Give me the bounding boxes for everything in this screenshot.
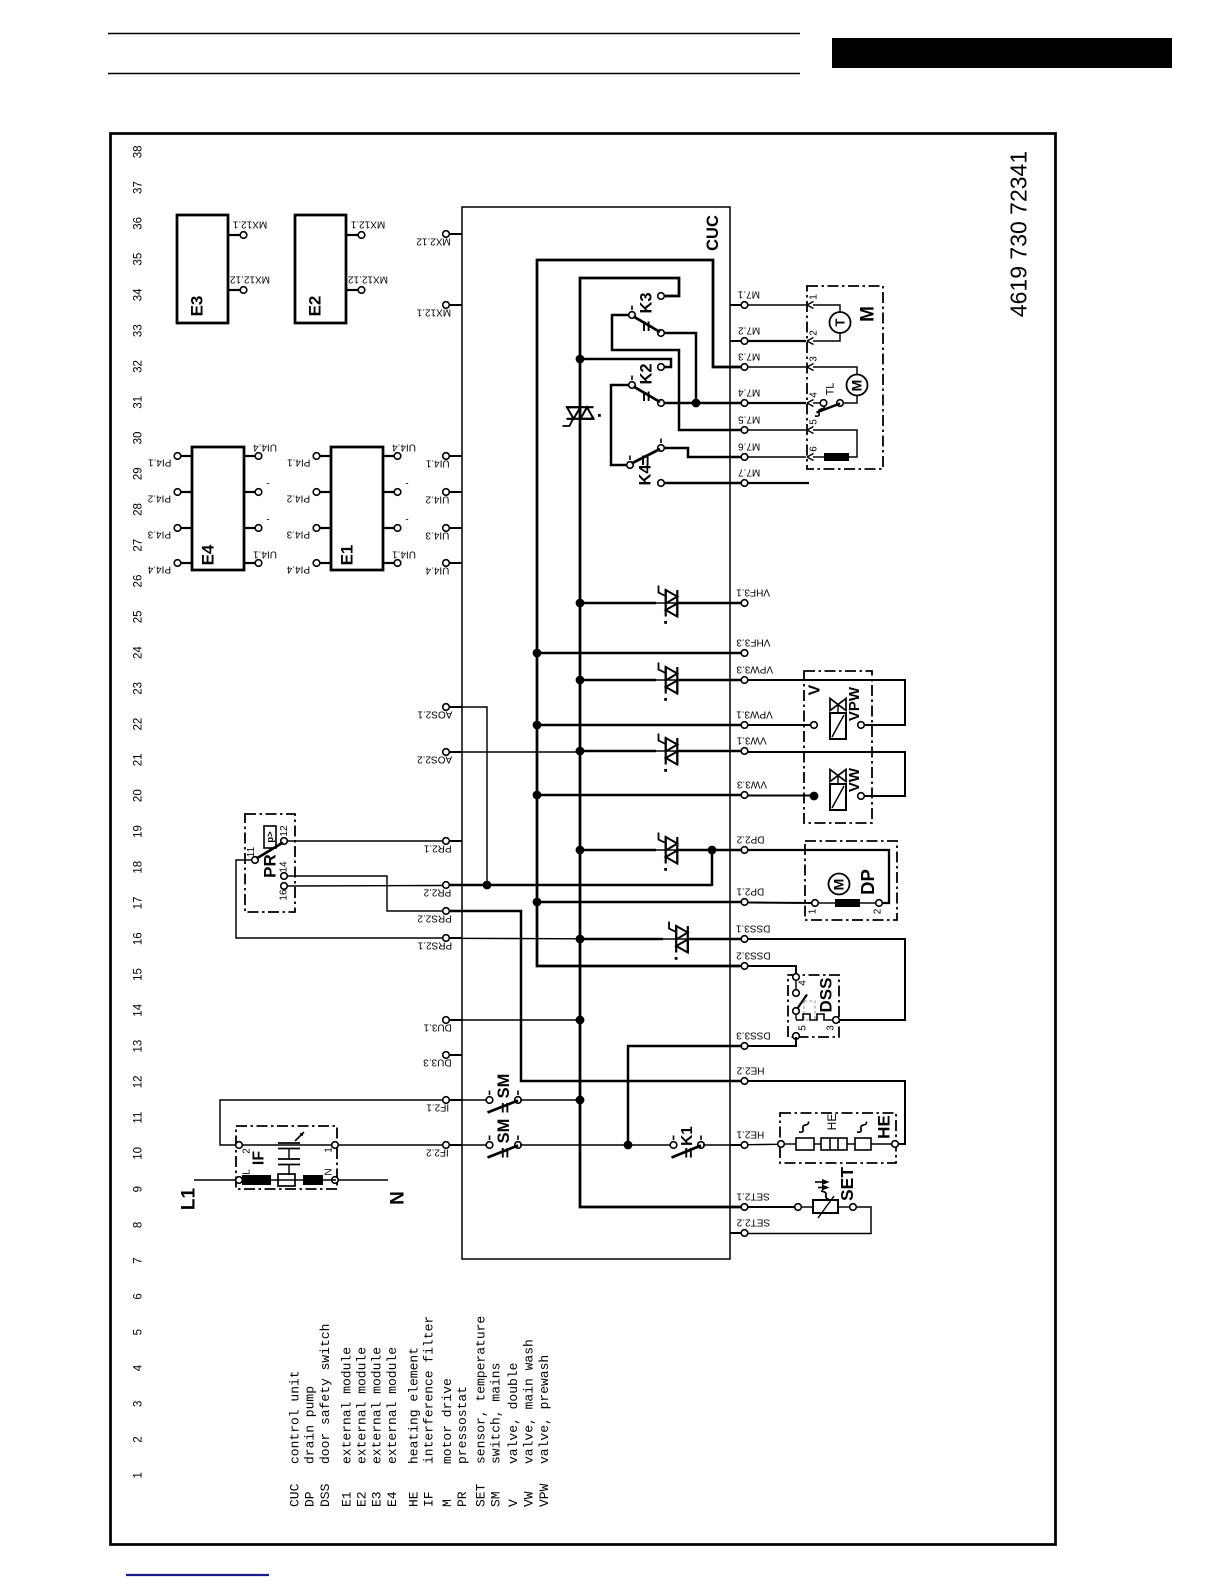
svg-text:SET2.1: SET2.1	[736, 1191, 770, 1202]
svg-text:26: 26	[132, 575, 144, 588]
svg-text:32: 32	[132, 360, 144, 373]
svg-text:VHF3.3: VHF3.3	[736, 637, 770, 648]
svg-text:M7.3: M7.3	[738, 351, 761, 362]
svg-text:SM: SM	[495, 1119, 513, 1144]
svg-text:M7.1: M7.1	[737, 289, 760, 300]
svg-text:control unit: control unit	[288, 1370, 303, 1464]
svg-text:VHF3.1: VHF3.1	[736, 587, 770, 598]
svg-text:VPW: VPW	[846, 686, 863, 721]
svg-text:V: V	[506, 1499, 521, 1507]
svg-text:MX12.12: MX12.12	[348, 274, 388, 285]
svg-text:sensor, temperature: sensor, temperature	[474, 1316, 489, 1464]
svg-text:MX12.1: MX12.1	[232, 219, 267, 230]
svg-text:38: 38	[132, 145, 144, 158]
svg-text:PI4.1: PI4.1	[287, 457, 311, 468]
svg-text:p>: p>	[265, 831, 276, 843]
svg-text:30: 30	[132, 432, 144, 445]
svg-text:PR2.1: PR2.1	[423, 843, 451, 854]
svg-text:20: 20	[132, 789, 144, 802]
svg-text:E4: E4	[199, 544, 218, 565]
svg-text:DU3.3: DU3.3	[423, 1057, 452, 1068]
svg-text:VW3.3: VW3.3	[737, 779, 767, 790]
svg-text:DSS3.1: DSS3.1	[735, 923, 770, 934]
svg-text:PI4.2: PI4.2	[147, 493, 171, 504]
svg-text:19: 19	[132, 825, 144, 838]
svg-text:MX12.1: MX12.1	[350, 219, 385, 230]
svg-text:SET: SET	[837, 1167, 857, 1201]
svg-text:37: 37	[132, 181, 144, 194]
svg-text:CUC: CUC	[704, 215, 722, 251]
svg-text:21: 21	[132, 754, 144, 767]
svg-text:VW: VW	[522, 1491, 537, 1507]
svg-text:valve, main wash: valve, main wash	[522, 1339, 537, 1464]
svg-text:4619 730 72341: 4619 730 72341	[1006, 151, 1032, 317]
svg-text:M7.7: M7.7	[738, 467, 761, 478]
svg-text:16: 16	[132, 932, 144, 945]
svg-text:22: 22	[132, 718, 144, 731]
svg-text:11: 11	[246, 846, 257, 857]
svg-text:drain pump: drain pump	[303, 1386, 318, 1464]
svg-text:E1: E1	[340, 1491, 355, 1507]
svg-text:13: 13	[132, 1040, 144, 1053]
svg-text:-: -	[405, 514, 408, 525]
svg-text:VW3.1: VW3.1	[736, 735, 766, 746]
svg-text:V: V	[806, 684, 823, 695]
svg-text:HE: HE	[825, 1114, 839, 1131]
svg-text:8: 8	[132, 1222, 144, 1228]
svg-text:SM: SM	[489, 1491, 504, 1507]
svg-text:16: 16	[278, 889, 289, 901]
svg-text:DSS: DSS	[318, 1483, 333, 1507]
svg-text:UI4.1: UI4.1	[253, 549, 277, 560]
svg-text:E2: E2	[355, 1491, 370, 1507]
svg-text:HE: HE	[407, 1491, 422, 1507]
svg-text:K3: K3	[637, 292, 655, 313]
svg-text:PI4.2: PI4.2	[286, 493, 310, 504]
svg-text:K4: K4	[636, 464, 654, 486]
svg-text:N: N	[387, 1191, 408, 1205]
svg-text:MX12.1: MX12.1	[416, 307, 451, 318]
svg-text:PI4.1: PI4.1	[148, 457, 172, 468]
svg-text:E1: E1	[338, 545, 357, 566]
svg-text:PI4.4: PI4.4	[286, 564, 310, 575]
svg-text:VPW3.1: VPW3.1	[736, 709, 773, 720]
svg-text:34: 34	[132, 288, 144, 301]
svg-text:heating element: heating element	[407, 1347, 422, 1464]
svg-text:AOS2.1: AOS2.1	[417, 709, 452, 720]
svg-text:HE: HE	[875, 1115, 894, 1139]
svg-text:DP2.2: DP2.2	[736, 834, 764, 845]
svg-text:SM: SM	[495, 1074, 513, 1099]
svg-text:PI4.4: PI4.4	[147, 564, 171, 575]
svg-text:33: 33	[132, 324, 144, 337]
svg-text:PRS2.2: PRS2.2	[417, 913, 452, 924]
svg-text:SET: SET	[474, 1483, 489, 1507]
svg-text:1: 1	[808, 294, 819, 300]
svg-text:M7.2: M7.2	[738, 325, 761, 336]
svg-text:HE2.1: HE2.1	[736, 1129, 764, 1140]
svg-text:1: 1	[323, 1147, 334, 1153]
svg-text:3: 3	[132, 1401, 144, 1407]
svg-text:4: 4	[132, 1364, 144, 1371]
svg-text:1: 1	[132, 1472, 144, 1478]
svg-text:2: 2	[808, 330, 819, 336]
svg-text:HE2.2: HE2.2	[736, 1065, 764, 1076]
svg-text:DSS3.2: DSS3.2	[736, 950, 771, 961]
svg-text:-: -	[266, 514, 269, 525]
svg-text:E3: E3	[188, 296, 207, 317]
svg-text:UI4.1: UI4.1	[392, 549, 416, 560]
svg-text:PR: PR	[261, 854, 280, 878]
svg-text:11: 11	[132, 1112, 144, 1124]
svg-text:DP: DP	[303, 1491, 318, 1507]
svg-text:23: 23	[132, 682, 144, 695]
svg-text:17: 17	[132, 897, 144, 910]
svg-text:external module: external module	[355, 1347, 370, 1464]
svg-text:VPW: VPW	[537, 1483, 552, 1507]
svg-text:1: 1	[807, 908, 818, 914]
svg-text:switch, mains: switch, mains	[489, 1363, 504, 1464]
svg-text:DP: DP	[857, 869, 878, 895]
svg-text:5: 5	[132, 1329, 144, 1335]
svg-text:-: -	[405, 478, 408, 489]
svg-text:35: 35	[132, 253, 144, 266]
svg-text:N: N	[323, 1168, 334, 1175]
svg-text:25: 25	[132, 610, 144, 623]
svg-text:24: 24	[132, 646, 144, 659]
svg-text:2: 2	[241, 1148, 252, 1154]
svg-text:M: M	[857, 306, 878, 322]
svg-text:AOS2.2: AOS2.2	[417, 754, 452, 765]
svg-text:IF: IF	[422, 1491, 437, 1507]
svg-text:12: 12	[279, 825, 290, 837]
svg-text:31: 31	[132, 396, 144, 409]
svg-text:M7.4: M7.4	[738, 387, 761, 398]
svg-text:UI4.1: UI4.1	[425, 458, 449, 469]
svg-text:M7.5: M7.5	[738, 414, 761, 425]
svg-text:UI4.4: UI4.4	[425, 565, 449, 576]
svg-text:4: 4	[797, 980, 808, 986]
svg-text:SET2.2: SET2.2	[736, 1217, 770, 1228]
svg-text:7: 7	[132, 1257, 144, 1263]
svg-text:L1: L1	[178, 1187, 199, 1210]
svg-text:interference filter: interference filter	[422, 1316, 437, 1464]
svg-text:IF: IF	[250, 1151, 267, 1165]
svg-text:UI4.4: UI4.4	[392, 442, 416, 453]
svg-text:K2: K2	[637, 363, 655, 384]
svg-text:2: 2	[872, 908, 883, 914]
svg-text:VPW3.3: VPW3.3	[736, 664, 773, 675]
svg-text:valve, prewash: valve, prewash	[537, 1355, 552, 1464]
svg-text:motor drive: motor drive	[440, 1378, 455, 1464]
svg-text:UI4.4: UI4.4	[253, 442, 277, 453]
svg-text:E3: E3	[370, 1491, 385, 1507]
svg-text:TL: TL	[825, 383, 837, 396]
svg-text:-: -	[266, 478, 269, 489]
svg-text:IF2.2: IF2.2	[426, 1147, 449, 1158]
svg-text:UI4.2: UI4.2	[425, 494, 449, 505]
svg-text:K1: K1	[679, 1126, 696, 1146]
svg-text:PR2.2: PR2.2	[423, 887, 451, 898]
svg-text:M: M	[849, 380, 865, 392]
svg-text:6: 6	[808, 446, 819, 452]
svg-text:3: 3	[825, 1025, 836, 1031]
svg-text:6: 6	[132, 1293, 144, 1299]
svg-text:2: 2	[132, 1436, 144, 1442]
svg-text:door safety switch: door safety switch	[318, 1324, 333, 1464]
svg-text:pressostat: pressostat	[455, 1386, 470, 1464]
svg-text:T: T	[832, 318, 847, 326]
svg-text:29: 29	[132, 467, 144, 480]
svg-text:18: 18	[132, 861, 144, 874]
svg-text:E2: E2	[306, 296, 325, 317]
svg-text:M: M	[440, 1499, 455, 1507]
svg-text:IF2.1: IF2.1	[426, 1102, 449, 1113]
svg-text:UI4.3: UI4.3	[425, 530, 449, 541]
svg-text:36: 36	[132, 217, 144, 230]
svg-text:4: 4	[808, 392, 819, 398]
svg-text:valve, double: valve, double	[506, 1363, 521, 1464]
svg-text:external module: external module	[385, 1347, 400, 1464]
svg-text:external module: external module	[340, 1347, 355, 1464]
svg-text:10: 10	[132, 1147, 144, 1160]
svg-text:DU3.1: DU3.1	[423, 1022, 452, 1033]
svg-text:MX2.12: MX2.12	[416, 236, 451, 247]
svg-text:28: 28	[132, 503, 144, 516]
svg-text:DSS: DSS	[817, 978, 836, 1013]
svg-text:VW: VW	[846, 767, 863, 792]
svg-text:PRS2.1: PRS2.1	[417, 940, 452, 951]
svg-text:CUC: CUC	[288, 1483, 303, 1507]
svg-text:M7.6: M7.6	[738, 441, 761, 452]
svg-text:external module: external module	[370, 1347, 385, 1464]
svg-text:3: 3	[808, 356, 819, 362]
svg-text:DSS3.3: DSS3.3	[736, 1030, 771, 1041]
svg-text:12: 12	[132, 1075, 144, 1088]
svg-text:M: M	[831, 879, 847, 891]
svg-text:14: 14	[278, 861, 289, 873]
svg-text:14: 14	[132, 1003, 144, 1016]
svg-text:DP2.1: DP2.1	[736, 886, 764, 897]
svg-text:27: 27	[132, 539, 144, 552]
svg-text:5: 5	[808, 419, 819, 425]
svg-text:9: 9	[132, 1186, 144, 1192]
svg-text:PR: PR	[455, 1491, 470, 1507]
svg-text:MX12.12: MX12.12	[230, 274, 270, 285]
svg-text:E4: E4	[385, 1491, 400, 1507]
svg-text:PI4.3: PI4.3	[286, 529, 310, 540]
svg-text:L: L	[241, 1169, 252, 1175]
svg-text:15: 15	[132, 968, 144, 981]
svg-text:5: 5	[797, 1025, 808, 1031]
svg-text:PI4.3: PI4.3	[147, 529, 171, 540]
